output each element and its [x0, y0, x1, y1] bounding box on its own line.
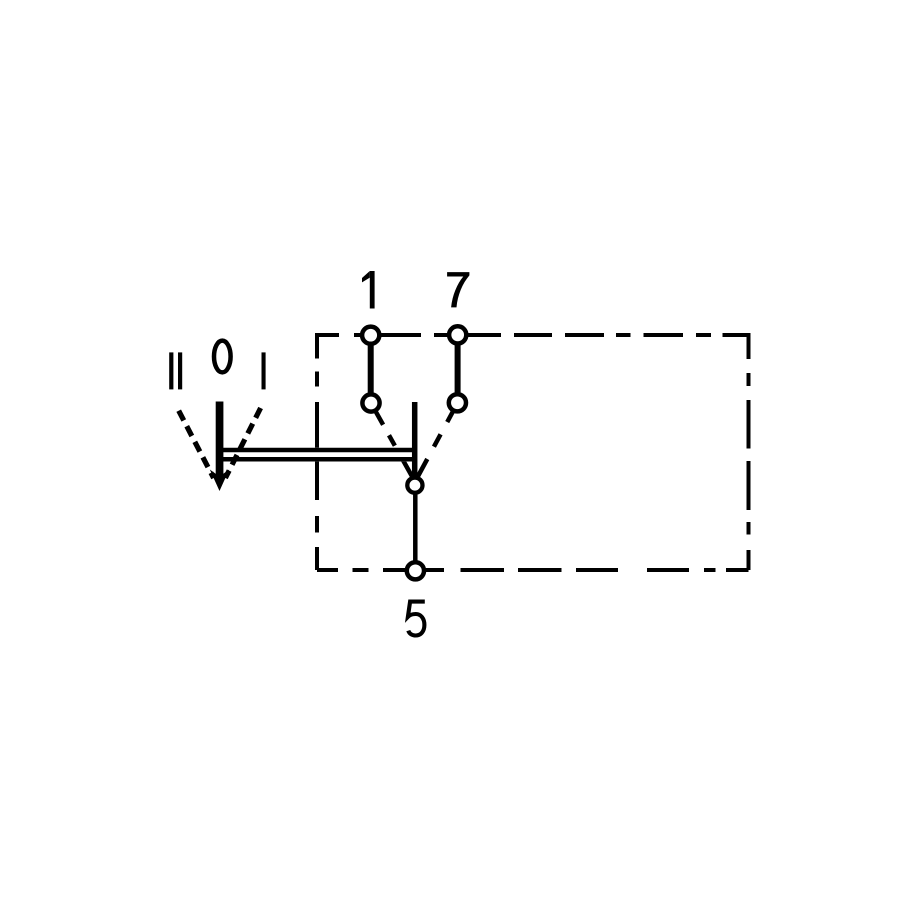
- movable contact lever: [412, 402, 418, 478]
- contact circle 1 (lower): [362, 394, 379, 411]
- actuator rod white core: [220, 448, 415, 462]
- pivot circle: [407, 478, 422, 493]
- terminal circle 7: [449, 326, 466, 343]
- enclosure left edge (dash-dot): [315, 333, 319, 570]
- actuator arrow shaft: [216, 402, 224, 478]
- dashed position line II (left branch of V): [179, 411, 214, 478]
- enclosure bottom edge (dash-dot): [317, 568, 749, 572]
- enclosure right edge (dash-dot): [747, 333, 751, 570]
- enclosure top edge (dash-dot): [317, 333, 749, 337]
- actuator arrow head: [210, 470, 229, 492]
- actuator rod lower line: [220, 457, 415, 462]
- position mark 0: [214, 341, 231, 373]
- terminal circle 1: [362, 327, 379, 344]
- fixed contact bar 7: [455, 335, 461, 403]
- terminal label 5: [408, 602, 425, 636]
- terminal label 1: [362, 271, 375, 309]
- position mark II: [169, 352, 173, 389]
- terminal label 7: [447, 272, 469, 307]
- wire from pivot to terminal 5: [413, 485, 418, 570]
- fixed contact bar 1: [368, 335, 374, 403]
- dashed position line I (right branch of V): [225, 408, 260, 478]
- contact circle 7 (lower): [449, 394, 466, 411]
- dashed travel line from contact 7 to pivot: [417, 411, 454, 479]
- position mark I: [262, 352, 266, 389]
- dashed travel line from contact 1 to pivot: [375, 411, 413, 479]
- actuator rod upper line: [220, 448, 415, 453]
- terminal circle 5: [407, 562, 424, 579]
